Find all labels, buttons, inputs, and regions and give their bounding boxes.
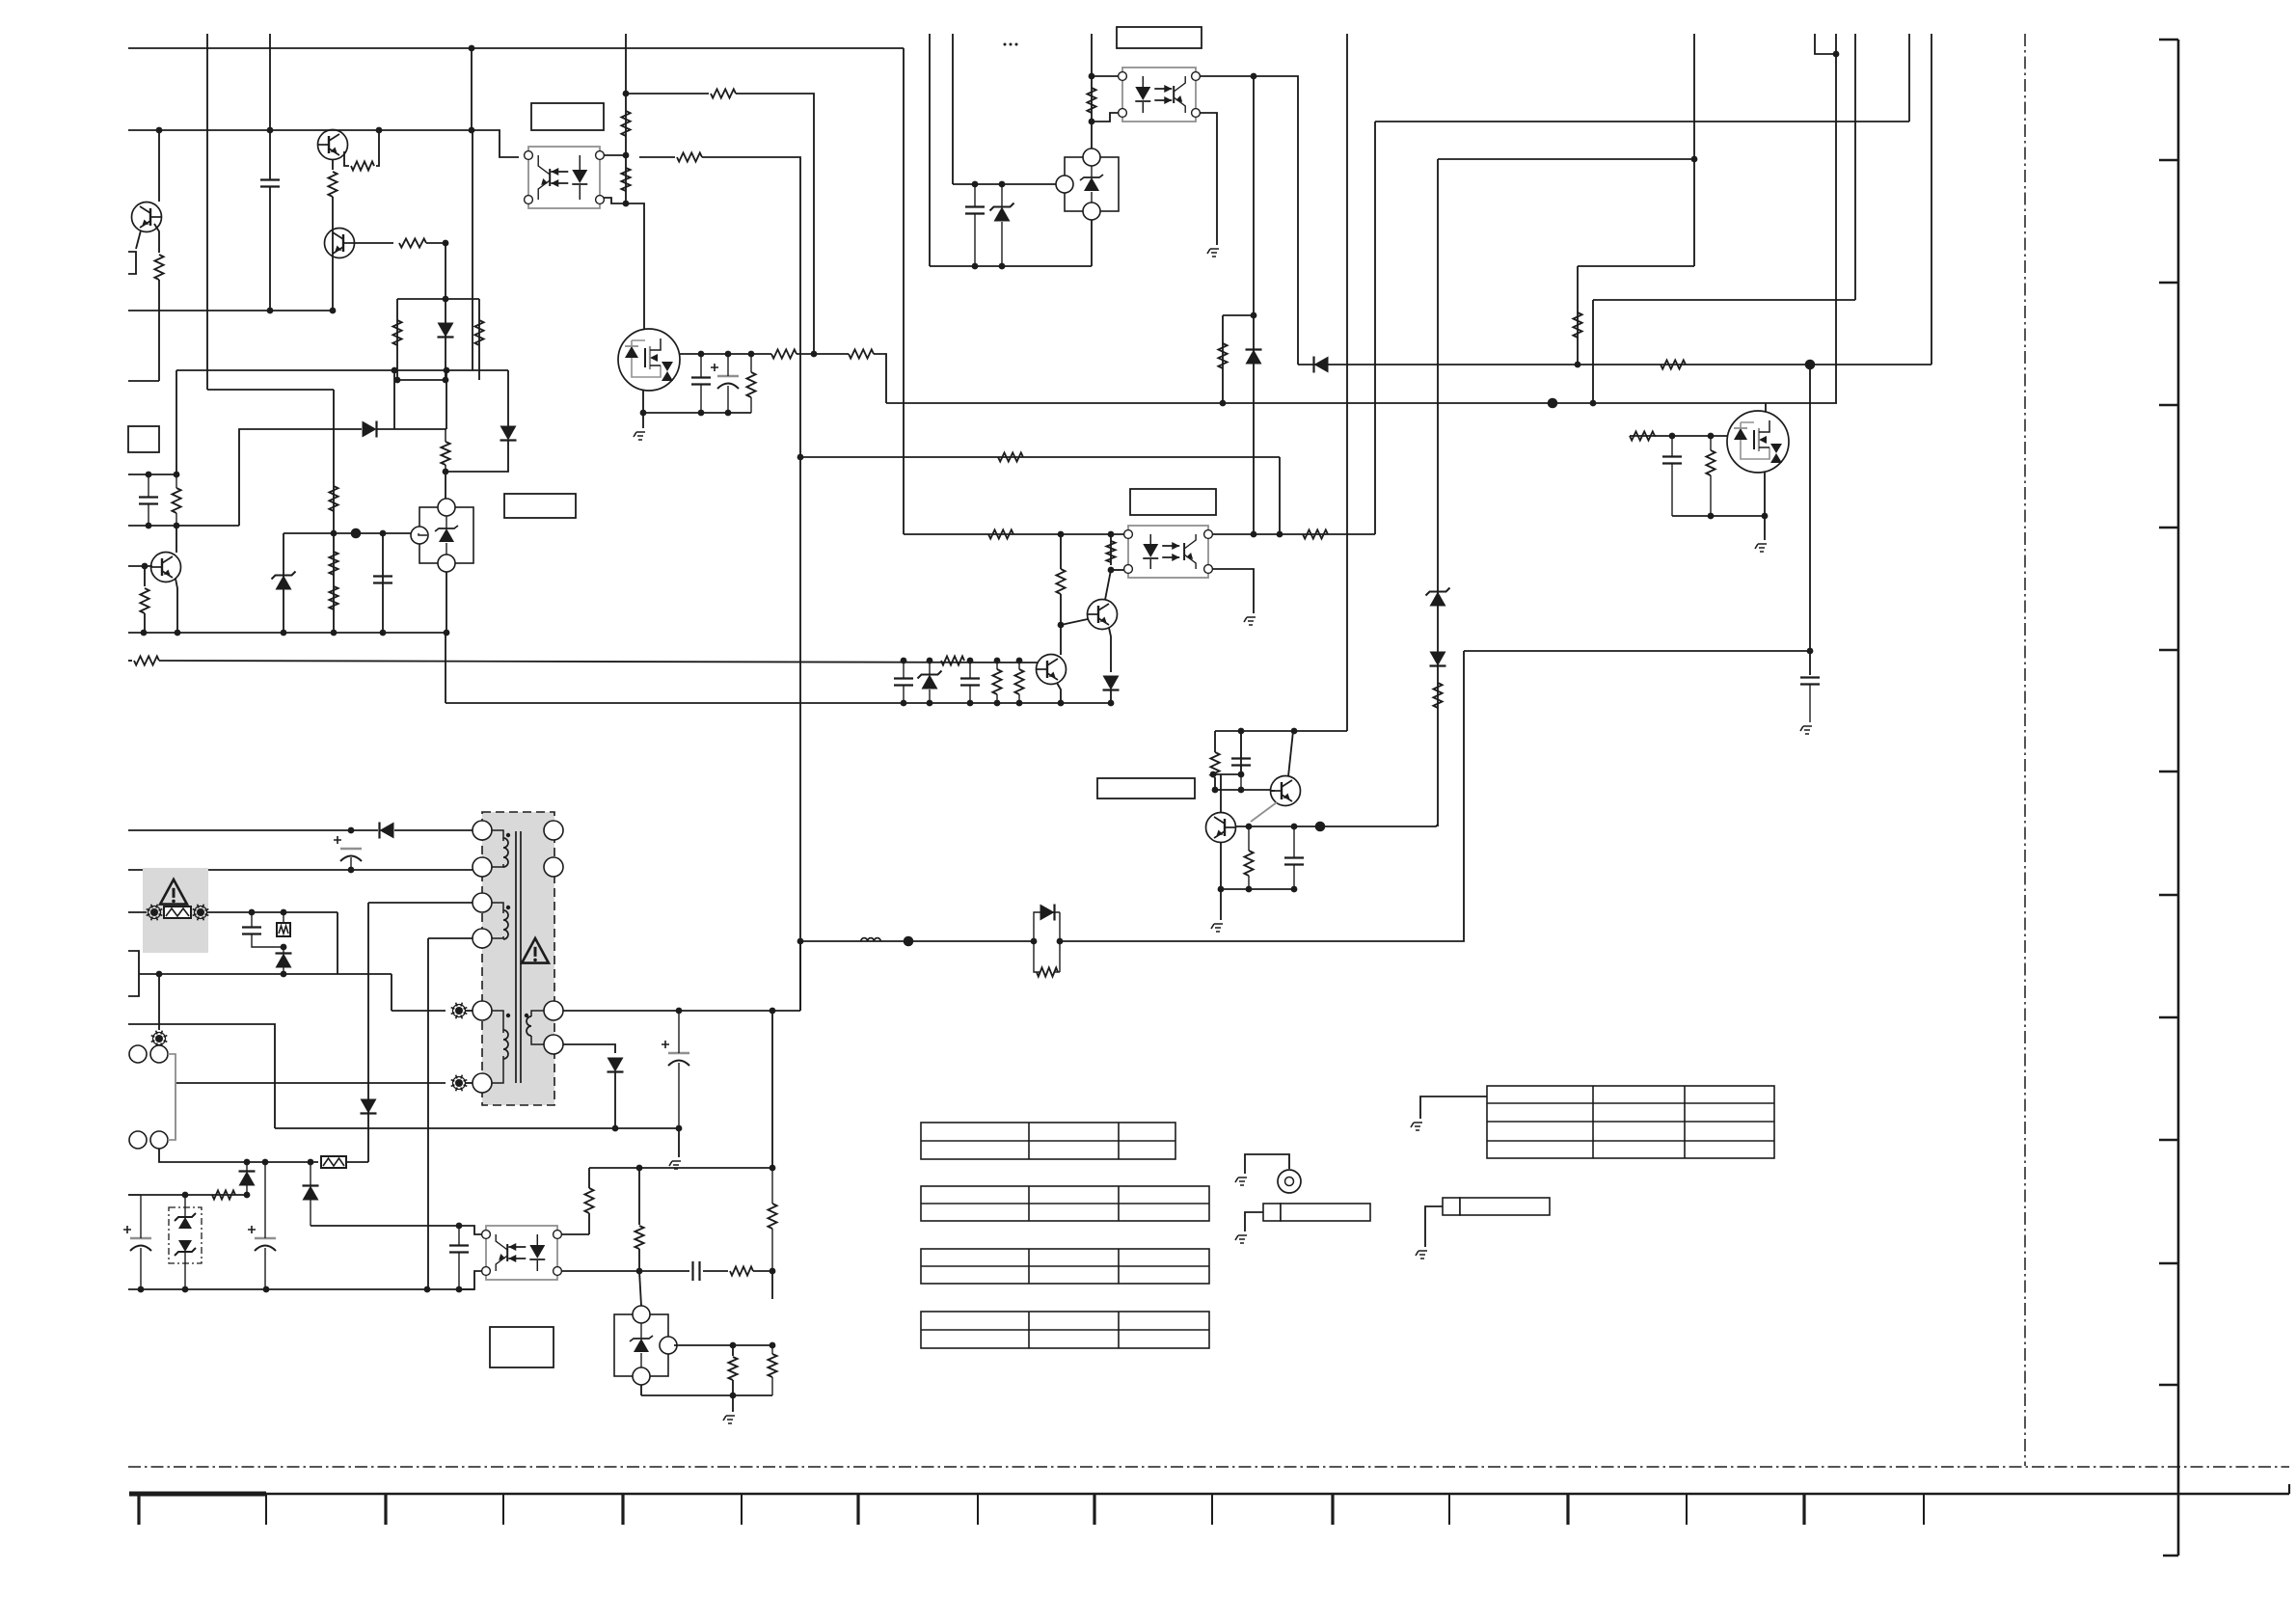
earth terminal jack [1278,1170,1301,1193]
node y946 a [249,909,256,916]
wire Q6 collector [1105,570,1111,600]
fusible resistor FR3 [320,1155,347,1169]
wire x801 seg4 [771,1377,773,1395]
wire choke jumper [168,1054,176,1140]
node y1447 mid [730,1393,737,1399]
wire pin3 corner [368,902,369,904]
node y310 [443,296,449,303]
wire C17 gnd stub [678,1128,680,1157]
node Q2 base net [443,240,449,247]
node y1239 b [244,1192,251,1199]
node pair a [1031,938,1038,945]
warning triangle T1 [522,938,549,963]
spark gap S5 [155,1035,163,1042]
wire output rail y976 left [800,940,1034,942]
capacitor C18 [691,1261,693,1281]
node y276 b [999,263,1006,270]
wire PC3 BL link [1111,569,1124,571]
wire y97 branch2 [736,94,814,354]
winding W3 lead2 [492,1056,503,1083]
resistor R36 [1210,752,1219,777]
wire C11 leads [1240,731,1242,758]
resistor R45 [768,1354,776,1377]
node y758 b [1291,728,1298,735]
wire x346 col [333,390,335,633]
wire x663 col2 [638,1249,640,1271]
wire x1397 col [1346,34,1348,731]
node y1395 a [730,1342,737,1349]
resistor R28 [988,529,1013,538]
wire C19 col2 [458,1253,460,1289]
resistor R3 [351,161,374,170]
wire D2 to x462 [377,428,446,430]
shunt regulator IC2 [419,507,473,563]
node x1904 [1833,51,1840,58]
resistor R17 [677,152,702,161]
node lineA big [1805,360,1816,370]
resistor R10 [329,486,338,511]
label box PC3 [1130,489,1216,515]
node y1271 [456,1223,463,1230]
resistor R4 [399,238,426,247]
wire zener rail y553 [284,532,419,534]
node y553 b [380,530,387,537]
transistor Q7 [1037,655,1067,685]
wire R8 leads [445,429,446,442]
diode D12 [239,1172,256,1186]
node y729 q [1058,700,1065,707]
wire q5 gate2 [1655,435,1727,437]
resistor R39 [212,1190,235,1199]
wire y276 rail [930,265,1092,267]
wire x1491 col [1437,159,1439,826]
diode D4 [1314,357,1329,373]
resistor R8 [441,442,449,465]
transistor Q9 [1271,776,1301,806]
wire R20 leads [750,354,752,372]
node y474 [797,454,804,461]
winding W1 lead [492,830,503,841]
node y1337 d [424,1286,431,1293]
wire x665 reg col [639,1271,641,1306]
wire gnd drop to y729 [445,633,446,703]
wire x663 col [638,1168,640,1225]
wire vertical x280 lower [269,187,271,311]
wire pair bottom2 [1055,971,1060,973]
wire C19 col [458,1226,460,1245]
wire Q3 emitter [176,579,177,633]
resistor R20 [746,372,755,397]
node y758 a [1238,728,1245,735]
node q5 gnd2 [1762,513,1769,520]
connector bracket [128,951,139,996]
schematic bottom dash-dot border [128,1466,2289,1468]
resistor R26 [1706,450,1715,475]
node y1239 a [182,1192,189,1199]
wire FR2 leads [283,912,284,922]
ground Q5 [1755,544,1767,552]
node q4 gnd c [725,410,732,417]
wire D13 lead2 [310,1200,311,1226]
zener pair dash-dot box [169,1207,202,1263]
wire R7 lead2 [176,513,177,526]
zener ZD4 [1430,592,1446,607]
capacitor C16 electrolytic [255,1237,276,1239]
label box IC1 [128,426,159,452]
wire y489 link [446,441,508,472]
node x1877 cap [1807,648,1814,655]
node x165 y1010 [156,971,163,978]
optocoupler PC3 [1128,526,1208,578]
wire x527 upper [507,370,509,426]
wire x1980 riser [1908,34,1910,122]
wire vertical x280 upper [269,34,271,179]
wire choke to fuse line [159,1149,247,1162]
wire C13 lead2 [350,857,352,870]
wire x1924 riser [1854,34,1856,300]
optocoupler PC2 [1122,68,1196,122]
wire pin9 rail [563,1010,800,1012]
node y394 a [394,377,401,384]
diode D14 [608,1058,624,1072]
wire reg left pin [419,533,427,535]
wire C7 lead2 [1671,464,1673,516]
ground Q8 [1211,924,1223,932]
node y922 a [1218,886,1225,893]
node y729 e [1016,700,1023,707]
transistor Q10 [132,203,162,232]
node q5 a [1669,433,1676,440]
capacitor C8 [1800,676,1820,678]
transformer T1 shaded area [482,812,554,1105]
node y135 b [267,127,274,134]
node y554 b [1108,531,1115,538]
wire C7 leads [1671,436,1673,456]
wire table gnd link [1420,1096,1487,1119]
node y729 a [901,700,907,707]
capacitor C13 electrolytic [340,848,362,850]
zener ZD1 [276,576,292,590]
node y553 a [331,530,338,537]
node y322 b [330,308,337,314]
resistor R32 [941,656,964,664]
capacitor C14 [242,926,261,928]
winding W1 lead2 [492,864,503,867]
transistor Q3 [151,553,181,582]
winding W3 lead [492,1011,503,1033]
fusible resistor FR1 [163,906,192,919]
wire R4 to node [426,242,446,244]
wire q4 bottom rail [643,412,751,414]
wire C10 leads [969,661,971,678]
optocoupler PC1 [528,147,600,208]
node x1300 mid [1251,312,1257,319]
ground PC3 [1244,617,1256,625]
node gnd d [380,630,387,636]
wire C15 col2 [140,1248,142,1289]
diode D6 [1103,676,1120,690]
node q5 b [1708,433,1715,440]
node x1757 [1691,156,1698,163]
wire PC3 TR wire [1212,533,1375,535]
resistor R11 [329,552,338,575]
wire PC2 BR [1200,113,1217,245]
resistor R44 [768,1204,776,1229]
node y1337 b [182,1286,189,1293]
wire pin2 feed [128,869,473,871]
node y545 a [146,523,152,529]
resistor R7 [172,488,180,513]
line filter choke terminal A [150,1045,168,1063]
wire PC2 BL jog [1092,113,1119,122]
capacitor C17 electrolytic [668,1052,689,1054]
node D3 junction [443,469,449,475]
node lineB R col [1220,400,1227,407]
transformer T1 right pin 9 [544,1001,563,1020]
wire x1882 jog [1815,34,1836,54]
node x649 a [623,91,630,97]
zener ZD2 [994,207,1011,222]
node y276 a [972,263,979,270]
wire R37 lead2 [1248,876,1250,889]
node y729 d [994,700,1001,707]
wire PC1 TR to x649 [604,154,626,156]
page fold dash-dot border vertical [2024,34,2026,1466]
capacitor C2 [139,496,158,498]
wire F2 gnd [1425,1206,1443,1247]
wire bus y322 [128,310,334,311]
node y1010 [281,971,287,978]
node x663 y1318 [636,1268,643,1275]
node y1205 a [244,1159,251,1166]
wire PC3 BR [1212,569,1254,613]
ground F2 [1416,1251,1427,1259]
wire y474 rail [800,456,1280,458]
wire q5 src rail [1672,515,1765,517]
transistor Q2 [325,229,355,258]
wire pin5 feed [392,1010,446,1012]
diode D7 [1430,652,1446,666]
wire output rail y976 right [1060,651,1464,941]
node y1170 b [676,1125,683,1132]
wire C6 leads [974,184,976,206]
node lineD b [927,658,933,664]
wire D12 lead [246,1162,248,1172]
wire y554 rail [904,533,1128,535]
wire line B [886,402,1837,404]
table list right [1487,1086,1774,1158]
node x294 b [281,944,287,951]
wire x1100 col2 [1060,594,1062,655]
capacitor C5 electrolytic [717,375,739,377]
wire x801 seg3 [771,1345,773,1354]
wire horizontal jog y404 [207,389,334,391]
wire F1 gnd [1245,1212,1263,1232]
wire R34 lead2 [1018,694,1020,703]
wire Q9 base link [1271,790,1275,792]
resistor R16 [711,89,736,97]
node lineB big [1548,398,1558,409]
wire x1260 col2 [1214,777,1216,790]
winding W2 lead [492,903,503,913]
wire y1318 rail3 [753,1270,772,1272]
resistor R37 [1244,851,1253,876]
wire x760 col [732,1345,734,1356]
transformer T1 right pin 10 [544,1035,563,1054]
wire R9 col [144,566,146,586]
surge protector shaded box [143,868,208,953]
wire Q4 source down [642,391,644,413]
zener ZD3 [922,675,938,690]
node q4 c [748,351,755,358]
resistor R42 [730,1266,753,1275]
right ruler scale [2163,40,2178,1556]
wire C2 leads [148,475,149,497]
wire y1239 rail [128,1194,247,1196]
wire Q7 emitter [1057,683,1061,703]
wire IC6 bottom [640,1385,642,1395]
wire Q5 gate line [1630,435,1656,437]
node y384 b [444,367,450,374]
wire x463 upper [446,370,447,429]
wire Q1 emitter lower [332,197,334,311]
diode D3 [500,426,517,441]
node q4 a [698,351,705,358]
transistor Q8 [1206,813,1236,843]
node gnd a [141,630,148,636]
wire y819 rail [1215,789,1271,791]
wire R34 leads [1018,661,1020,669]
winding W2 lead2 [492,936,503,938]
wire C12 leads [1293,826,1295,857]
wire pin3 feed [369,902,473,904]
wire Q4 drain/source right [680,353,771,355]
capacitor C4 [691,376,711,378]
node y191 b [999,181,1006,188]
wire D12 lead2 [246,1185,248,1195]
wire x988 riser [952,34,954,184]
wire gnd stub [642,413,644,428]
winding W1 [503,838,508,867]
wire to corner x919 [874,354,886,403]
resistor R12 [329,586,338,609]
wire bias rail yD2 [159,661,1038,663]
wire x649 to gate [626,203,644,329]
node lineB x1652 [1590,400,1597,407]
node y322 a [267,308,274,314]
ground IC6 [723,1416,735,1423]
resistor R9 [140,588,149,613]
wire x165 lower [158,311,160,381]
wire reg B bottom [1091,220,1093,266]
node y946 b [281,909,287,916]
node y803 a [1210,771,1217,778]
node y394 b [443,377,449,384]
capacitor C11 [1231,757,1251,759]
wire pin4 feed [428,937,473,939]
wire gnd stub IC6 [732,1395,734,1412]
wire zener pair col [184,1195,186,1217]
wire ground bus y656 [128,632,446,634]
node gnd c [281,630,287,636]
diode D11 [361,1099,377,1114]
node y1048 b [770,1008,776,1015]
wire Q9 emitter [1251,802,1277,822]
zener ZD5 [178,1217,192,1229]
transformer T1 core [516,831,521,1083]
capacitor C7 [1662,455,1682,457]
inductor L1 [861,938,880,941]
wire x382 col [367,903,369,1162]
wire Q3 collector [176,526,177,553]
wire C15 col [140,1195,142,1238]
node y553 big [351,528,362,539]
resistor R31 [1106,541,1115,562]
wire y394 rail [397,379,446,381]
node x1132 a [1089,73,1095,80]
node y819 [1212,787,1219,794]
node y803 b [1238,771,1245,778]
wire Q3 base [128,565,152,567]
wire C9 lead2 [903,686,905,703]
winding W2 polarity dot [506,906,510,909]
wire ZD2 leads [1001,184,1003,206]
wire R3 to x393 [376,130,379,166]
wire y758 rail [1215,730,1347,732]
diode D8 [1040,905,1055,921]
shunt regulator IC3 [1065,157,1119,211]
wire y675 rail [1464,650,1810,652]
wire x611 col2 [588,1213,590,1234]
resistor R2 [328,172,337,197]
capacitor C15 electrolytic [130,1237,151,1239]
node y493 b [174,472,180,478]
resistor R22 [1087,88,1095,113]
node y729 c [967,700,974,707]
resistor R34 [1014,669,1023,694]
wire choke stub [158,974,160,1030]
node pin1 cap [348,827,355,834]
wire pin10 jog [563,1044,615,1053]
wire x1300 col [1253,76,1255,534]
winding W4 lead [531,1011,544,1016]
node x346 y656 [331,630,338,636]
wire pin6 feed2 [466,1082,473,1084]
wire y135 to opto jog [472,130,519,157]
wire x350 col [337,912,338,974]
resistor R29 [1303,529,1328,538]
MOSFET Q4 [618,329,680,391]
wire IC6 right pin wire [674,1344,772,1346]
wire y1211 rail [589,1167,772,1169]
resistor R23 [1218,343,1227,368]
transformer T1 dashed box [482,812,554,1105]
spark gap S2 [455,1079,463,1087]
wire Qa base link [1061,619,1088,625]
node lineA zcol [1575,362,1581,368]
node gnd b [175,630,181,636]
ground Q4 [634,432,645,440]
wire x801 col [771,1011,773,1168]
capacitor C12 [1284,856,1304,858]
spark gap S4 [197,908,204,916]
node y922 b [1246,886,1253,893]
wire PC4 TR wire [561,1233,589,1235]
wire D13 lead [310,1162,311,1186]
resistor R38 [1037,967,1058,976]
node y554 c [1251,531,1257,538]
wire y493 stub [128,474,176,475]
